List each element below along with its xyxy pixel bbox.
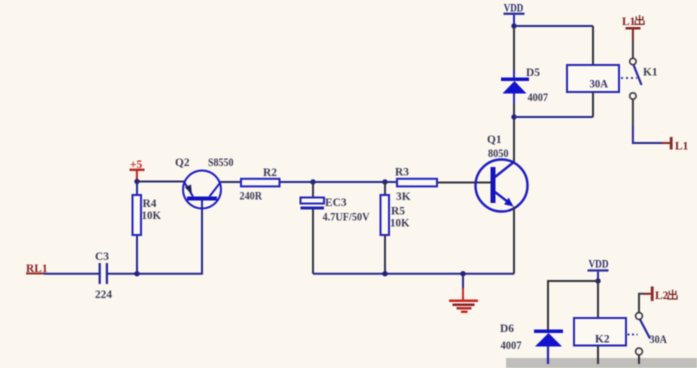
relay coil K1 30A bbox=[567, 65, 619, 92]
svg-text:R3: R3 bbox=[395, 167, 409, 179]
svg-text:D5: D5 bbox=[526, 67, 540, 79]
terminal L1出 bbox=[622, 15, 644, 40]
ground bbox=[449, 274, 478, 313]
wire VDD node down to D5 bbox=[513, 26, 515, 78]
svg-text:30A: 30A bbox=[590, 79, 609, 91]
junction D5 / relay bottom bbox=[511, 114, 516, 119]
svg-text:L1: L1 bbox=[675, 141, 689, 153]
svg-text:4007: 4007 bbox=[501, 340, 522, 352]
junction R3 / R5 top bbox=[382, 179, 387, 184]
power VDD (top) bbox=[504, 3, 525, 27]
svg-text:R2: R2 bbox=[263, 167, 277, 179]
wire D5 anode to relay node bbox=[513, 94, 515, 118]
svg-text:D6: D6 bbox=[500, 323, 514, 335]
svg-text:K1: K1 bbox=[643, 67, 658, 79]
svg-text:224: 224 bbox=[95, 289, 112, 301]
svg-text:30A: 30A bbox=[650, 334, 668, 346]
wire D6 anode down bbox=[547, 347, 549, 365]
wire R3 to Q1 base bbox=[437, 182, 491, 184]
power +5 bbox=[130, 159, 145, 182]
junction ground bbox=[460, 271, 465, 276]
capacitor C3 224 bbox=[95, 251, 112, 301]
wire bottom rail EC3 to Q1 emitter bbox=[313, 273, 514, 275]
relay contact K1 bbox=[621, 58, 658, 99]
transistor Q2 S8550 (PNP) bbox=[175, 157, 234, 209]
junction VDD node bbox=[511, 23, 516, 28]
svg-text:8050: 8050 bbox=[488, 148, 509, 160]
junction EC3 top bbox=[310, 179, 315, 184]
wire K2 switch down bbox=[638, 355, 640, 364]
svg-text:K2: K2 bbox=[595, 334, 610, 346]
power VDD (bottom) bbox=[588, 259, 609, 282]
svg-text:10K: 10K bbox=[142, 210, 162, 222]
wire Q2 collector to R2 bbox=[221, 181, 242, 183]
resistor R4 10K bbox=[133, 182, 162, 274]
svg-text:R4: R4 bbox=[143, 198, 157, 210]
svg-text:VDD: VDD bbox=[589, 259, 609, 271]
resistor R5 10K bbox=[381, 182, 410, 274]
wire VDD node to relay K1 top bbox=[514, 26, 593, 65]
wire Q1 emitter down to rail bbox=[513, 207, 515, 274]
svg-text:Q2: Q2 bbox=[175, 157, 190, 169]
svg-text:10K: 10K bbox=[390, 218, 410, 230]
wire VDD2 node to K2 coil bbox=[597, 281, 599, 318]
resistor R2 240R bbox=[240, 167, 280, 203]
svg-text:EC3: EC3 bbox=[325, 197, 347, 209]
transistor Q1 8050 (NPN) bbox=[476, 134, 528, 212]
capacitor EC3 4.7UF/50V bbox=[301, 182, 371, 274]
junction VDD2 node bbox=[595, 278, 600, 283]
terminal L1 bbox=[670, 137, 689, 153]
wire C3 to junction bbox=[108, 273, 137, 275]
junction R4 bottom / Q2 base node bbox=[134, 271, 139, 276]
wire RL1 to C3 bbox=[44, 273, 99, 275]
svg-text:240R: 240R bbox=[240, 191, 263, 203]
svg-text:4007: 4007 bbox=[528, 92, 549, 104]
junction R5 bottom bbox=[382, 271, 387, 276]
wire EC3 node to R3 node bbox=[313, 181, 385, 183]
relay coil K2 bbox=[574, 318, 626, 346]
relay contact K2 30A bbox=[628, 313, 668, 355]
wire L2出 to switch top contact bbox=[639, 294, 651, 313]
svg-text:Q1: Q1 bbox=[487, 134, 502, 146]
diode D5 4007 bbox=[501, 67, 548, 104]
svg-text:R5: R5 bbox=[391, 206, 405, 218]
wire switch to terminal L1 bbox=[633, 99, 670, 143]
wire Q1 collector up to D5 node bbox=[513, 117, 515, 162]
svg-text:4.7UF/50V: 4.7UF/50V bbox=[323, 212, 371, 224]
wire K2 coil down bbox=[597, 346, 599, 365]
wire VDD2 node to D6 bbox=[548, 281, 598, 330]
diode D6 4007 bbox=[500, 323, 563, 352]
svg-text:3K: 3K bbox=[396, 191, 411, 203]
junction +5 / R4 top bbox=[134, 179, 139, 184]
wire +5 node to Q2 emitter bbox=[137, 181, 184, 183]
wire junction to Q2 base bbox=[137, 200, 202, 274]
net label RL1 bbox=[26, 263, 48, 275]
svg-text:S8550: S8550 bbox=[208, 157, 234, 169]
svg-text:L1: L1 bbox=[622, 16, 636, 28]
svg-text:C3: C3 bbox=[95, 251, 109, 263]
terminal L2出 bbox=[651, 287, 677, 303]
wire relay K1 bottom to D5 node bbox=[514, 92, 593, 117]
wire R2 to EC3 node bbox=[280, 181, 314, 183]
resistor R3 3K bbox=[385, 167, 437, 204]
wire L1出 to switch top contact bbox=[632, 40, 634, 58]
svg-text:L2: L2 bbox=[655, 290, 669, 302]
